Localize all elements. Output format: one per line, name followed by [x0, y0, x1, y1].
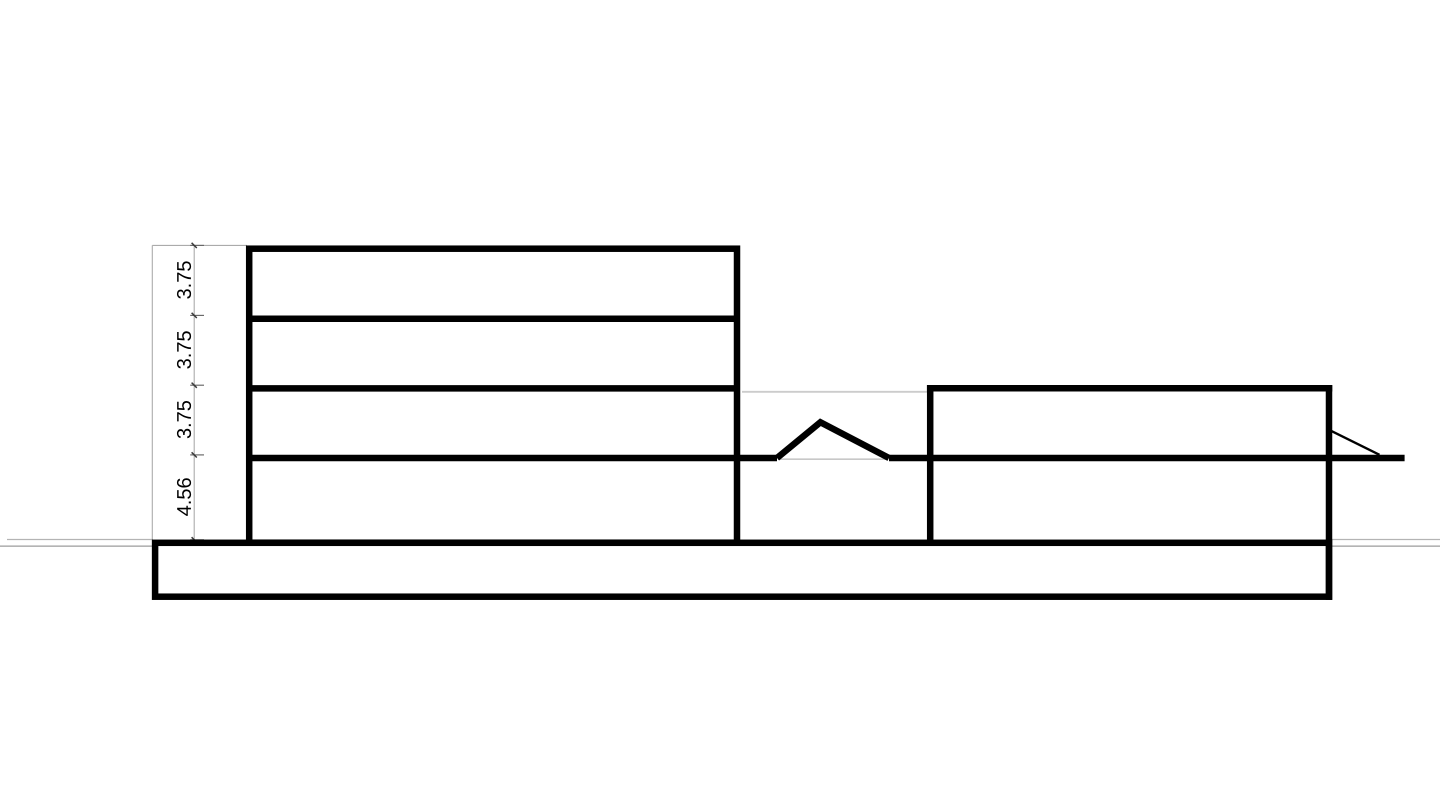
tick mark at level 3	[190, 452, 204, 457]
extension line vertical at left	[151, 245, 153, 539]
left building outline	[249, 249, 737, 543]
right building top edge	[927, 385, 1332, 392]
tick mark at level 2	[190, 383, 204, 388]
right building left wall	[927, 385, 934, 543]
left building floor line 2	[247, 385, 740, 392]
tick mark at level 1	[190, 313, 204, 318]
dimension label 4.56 (ground storey)	[177, 478, 191, 516]
plinth / basement slab	[155, 543, 1329, 597]
level 4 slab line, right run	[889, 455, 1405, 462]
dimension line vertical	[193, 245, 195, 539]
dimension label 3.75 (middle storey)	[177, 331, 191, 368]
dimension label 3.75 (top storey)	[177, 261, 191, 298]
dimension label 3.75 (lower storey)	[177, 401, 191, 438]
ground line lower, left segment	[0, 545, 153, 547]
ground line upper, right segment	[1332, 539, 1440, 541]
right building right wall (extends to plinth bottom)	[1326, 385, 1333, 600]
extension line horizontal at top	[152, 244, 247, 246]
ground line upper, left segment	[7, 539, 153, 541]
thin level line across gap between buildings	[742, 391, 930, 393]
level 4 slab line, left run	[247, 455, 777, 462]
tick mark at level 0 (top)	[190, 243, 204, 248]
tick mark at level 4 (ground)	[190, 537, 204, 542]
ground line lower, right segment	[1332, 545, 1440, 547]
thin base line under roof zigzag	[778, 458, 888, 460]
left building floor line 1	[247, 315, 740, 322]
diagonal brace line at right building	[1330, 430, 1380, 455]
roof zigzag between buildings	[777, 422, 889, 458]
